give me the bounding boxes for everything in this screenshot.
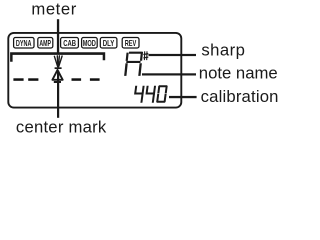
center mark dash under triangle xyxy=(54,81,61,83)
badge DYNA xyxy=(14,38,34,49)
svg-text:meter: meter xyxy=(31,0,76,18)
svg-text:CAB: CAB xyxy=(63,38,76,48)
badge AMP xyxy=(38,38,53,49)
scale dash 3 xyxy=(72,78,82,81)
note name glyph: 7-segment A xyxy=(124,52,143,76)
scale dash 4 xyxy=(90,78,100,81)
svg-text:center mark: center mark xyxy=(16,117,107,136)
callout line: center mark xyxy=(57,71,59,118)
svg-text:sharp: sharp xyxy=(201,40,245,59)
svg-text:DLY: DLY xyxy=(103,38,115,48)
svg-text:note name: note name xyxy=(199,63,278,82)
callout line: note name xyxy=(142,73,196,75)
callout line: calibration xyxy=(169,96,197,98)
calibration digit 0 xyxy=(156,85,168,103)
badge REV xyxy=(122,38,139,49)
callout line: sharp xyxy=(149,54,197,56)
calibration digit 4 xyxy=(133,86,145,103)
svg-text:DYNA: DYNA xyxy=(16,38,32,48)
meter needle pivot bar xyxy=(55,67,62,69)
badge DLY xyxy=(100,38,117,49)
meter needle triangle xyxy=(52,70,62,80)
meter needle fan xyxy=(54,56,62,67)
meter bracket xyxy=(10,52,105,61)
svg-text:REV: REV xyxy=(125,38,137,48)
sharp sign xyxy=(143,51,148,60)
badge MOD xyxy=(82,38,98,49)
calibration digit 4 xyxy=(144,86,156,103)
svg-text:AMP: AMP xyxy=(39,38,51,48)
svg-text:calibration: calibration xyxy=(201,87,279,106)
scale dash 2 xyxy=(28,78,38,81)
badge CAB xyxy=(61,38,79,49)
LCD panel outline xyxy=(8,33,181,108)
callout line: meter xyxy=(57,19,59,53)
svg-text:MOD: MOD xyxy=(83,38,96,48)
scale dash 1 xyxy=(13,78,23,81)
